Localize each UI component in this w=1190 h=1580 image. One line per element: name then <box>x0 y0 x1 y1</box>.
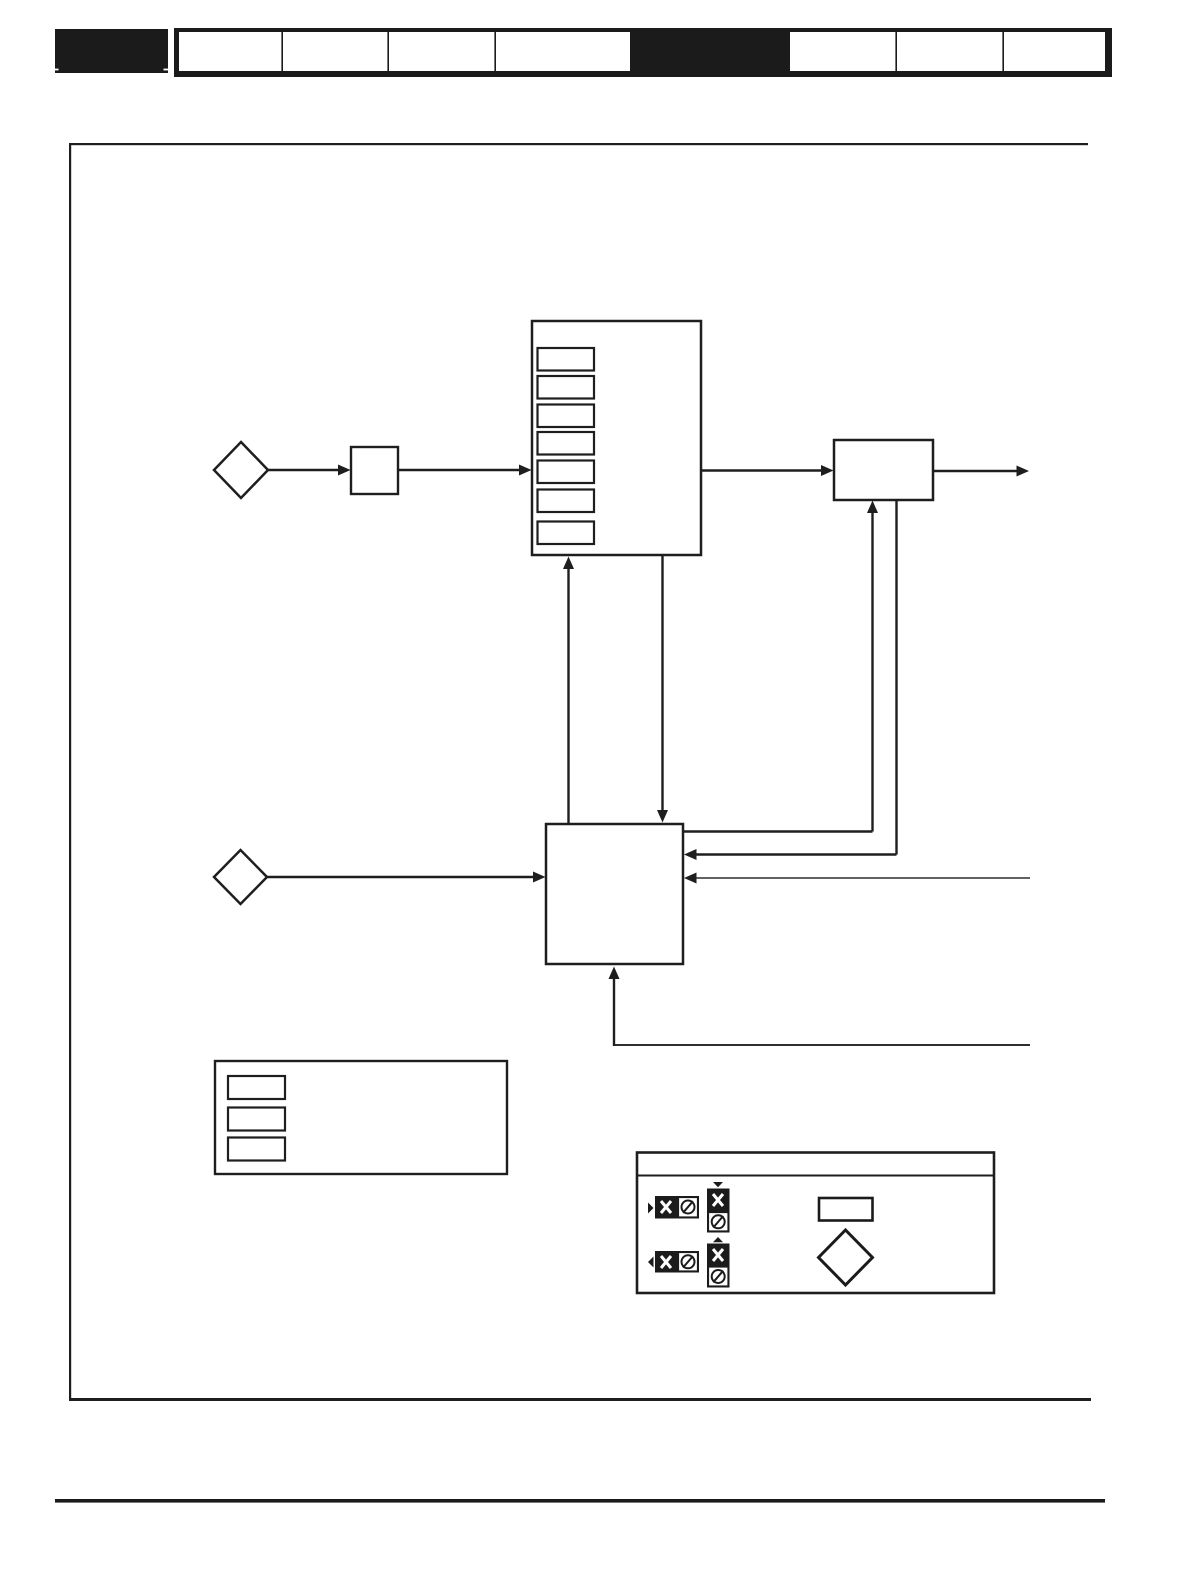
legend slot 3 <box>228 1138 285 1161</box>
key row1 no-entry cell <box>677 1196 699 1219</box>
arrow B1 to B2 <box>398 465 532 476</box>
parameter slot 3 <box>538 405 595 428</box>
header tab bar frame <box>174 28 1112 77</box>
key box <box>637 1153 994 1294</box>
legend slot 1 <box>228 1076 285 1099</box>
arrow B2 bottom down into B4 top <box>657 556 668 823</box>
header tab separator 1 <box>281 32 283 71</box>
key row2 read cell (black X) <box>655 1251 677 1273</box>
key column1 down marker <box>713 1182 723 1187</box>
key row2 left-pointing marker <box>648 1257 654 1268</box>
parameter slot 1 <box>538 348 595 371</box>
key column2 up marker <box>713 1237 723 1242</box>
key column2 no-entry cell <box>707 1266 730 1288</box>
footer rule <box>55 1499 1105 1503</box>
long input wire into B4 right <box>684 873 1030 884</box>
arrow B2 to B3 <box>701 465 834 476</box>
parameter slot 2 <box>538 376 595 399</box>
header selected tab (black) <box>630 32 790 71</box>
header black title block <box>54 29 168 73</box>
key row2 no-entry cell <box>677 1251 699 1273</box>
diagram frame (open right side) <box>69 143 1091 1401</box>
parameter slot 7 <box>538 522 595 545</box>
arrow D1 to box B1 <box>268 465 351 476</box>
wire B4 right to B3 bottom (up arrow) <box>683 501 878 832</box>
arrow D2 to B4 <box>267 872 546 883</box>
header tab separator 4 <box>895 32 897 71</box>
arrow B4 up into B2 bottom <box>563 557 574 824</box>
header tab separator 5 <box>1002 32 1004 71</box>
key row1 read cell (black X) <box>655 1196 677 1219</box>
legend box <box>215 1061 507 1174</box>
legend slot 2 <box>228 1108 285 1131</box>
process box B1 <box>351 447 398 494</box>
key column1 no-entry cell <box>707 1211 730 1233</box>
key box divider <box>637 1175 994 1177</box>
output box B3 <box>834 440 933 500</box>
key row1 right-pointing marker <box>648 1203 654 1214</box>
decision diamond D1 <box>214 442 268 498</box>
big parameter box B2 <box>532 321 701 555</box>
sequencer box B4 <box>546 824 683 964</box>
key sample diamond <box>819 1230 873 1285</box>
key column1 read cell (black X) <box>707 1189 730 1212</box>
parameter slot 5 <box>538 461 595 484</box>
key sample parameter rect <box>819 1198 873 1221</box>
parameter slot 4 <box>538 432 595 455</box>
header tab separator 2 <box>387 32 389 71</box>
parameter slot 6 <box>538 490 595 513</box>
decision diamond D2 <box>214 850 267 904</box>
bottom feedback wire into B4 bottom <box>609 967 1031 1047</box>
output arrow right <box>933 466 1029 477</box>
header tab separator 3 <box>494 32 496 71</box>
key column2 read cell (black X) <box>707 1244 730 1266</box>
wire B3 bottom down into B4 right (left arrow) <box>684 500 897 860</box>
